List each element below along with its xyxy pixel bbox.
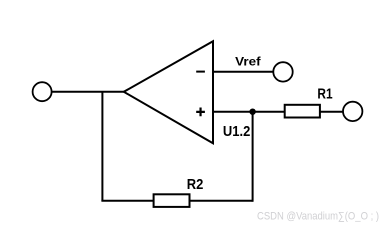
- svg-text:R2: R2: [187, 177, 204, 193]
- svg-text:Vref: Vref: [235, 55, 261, 69]
- svg-text:U1.2: U1.2: [223, 124, 250, 140]
- svg-text:CSDN @Vanadium∑(O_O ; ): CSDN @Vanadium∑(O_O ; ): [257, 210, 379, 222]
- svg-text:R1: R1: [317, 87, 332, 103]
